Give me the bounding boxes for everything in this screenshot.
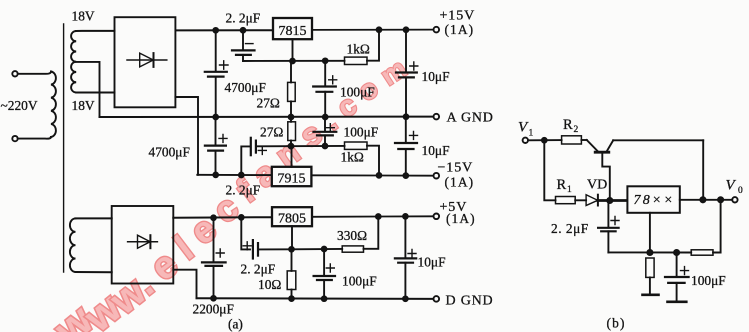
node dot emitter junction [607,198,612,203]
svg-text:1: 1 [567,185,572,195]
svg-text:27Ω: 27Ω [257,96,280,111]
svg-text:4700μF: 4700μF [225,80,266,95]
wire B1 minus output down [175,97,198,175]
wire R1 to VD [575,199,586,201]
capacitor C7 2.2uF mid plates [251,138,266,155]
wire primary bottom lead [18,137,51,139]
capacitor C6 100uF mid [314,117,337,146]
wire B2 minus output down [173,270,196,299]
resistor 10 ohm [287,249,296,298]
wire primary top lead [18,72,51,74]
regulator 78xx [627,186,679,213]
A GND rail [100,116,434,118]
svg-text:~220V: ~220V [1,98,38,113]
wire 7815 ground pin [292,39,294,61]
capacitor C1 4700uF upper [205,30,228,117]
terminal -15V [434,173,440,179]
node dot at 1k corner [377,27,382,32]
resistor 330 ohm [342,246,363,252]
transformer T1 core [63,24,65,272]
wire y61 bus [243,30,379,61]
svg-text:330Ω: 330Ω [337,228,367,243]
svg-text:(1A): (1A) [445,22,475,37]
node dot +5 10uF [403,214,408,219]
node dot rail-gnd resistor [647,250,652,255]
terminal A GND [434,114,440,120]
svg-text:7815: 7815 [279,24,307,39]
node dot minus 2.2uF [239,173,244,178]
node dot minus 4700uF [213,173,218,178]
transformer T1 secondary winding S2 [70,218,76,272]
wire 7805 out to +5V terminal [312,215,434,218]
resistor feedback horizontal [691,200,720,255]
node dot rail 100uF [674,250,679,255]
svg-text:27Ω: 27Ω [260,125,283,140]
node dot DGND 10uF [403,296,408,301]
resistor below 78xx gnd [646,258,654,294]
node dot AGND 27ohm [289,115,294,120]
node dot AGND 4700uF [213,115,218,120]
node dot output feedback [718,197,723,202]
svg-text:1kΩ: 1kΩ [341,150,364,165]
y146 bus with 2.2uF C7 [241,146,379,176]
node dot V1 junction [542,138,547,143]
wire 78xx gnd pin [649,213,651,253]
wire V1 junction down to R1 [544,140,555,200]
resistor 1k ohm lower [345,142,368,149]
svg-text:(b): (b) [607,316,626,331]
node dot AGND 100uF [323,115,328,120]
transistor Q1 [587,140,613,200]
svg-text:R: R [557,177,567,193]
regulator U3 7805 [272,207,312,226]
resistor 27 ohm upper [288,61,296,117]
transformer T1 primary winding [51,72,56,138]
svg-text:78××: 78×× [634,193,676,208]
wire R2 to transistor [581,139,586,141]
svg-text:2. 2μF: 2. 2μF [241,262,276,277]
svg-text:1: 1 [529,129,534,139]
svg-text:1kΩ: 1kΩ [347,42,370,57]
wire B2 + output to 7805 [173,216,272,219]
node dot +5 rail 2200uF [211,215,216,220]
regulator U1 7815 [273,18,312,39]
wire S1 top to bridge B1 [76,30,114,32]
svg-text:0: 0 [738,186,743,196]
capacitor C3 100uF upper [313,61,337,117]
node dot DGND 10ohm [289,296,294,301]
capacitor C13 2.2uF part b [598,201,619,253]
capacitor C12 10uF low [395,216,416,298]
wire VD to 78xx (thick) [598,199,628,202]
svg-text:2: 2 [574,125,579,135]
svg-text:2. 2μF: 2. 2μF [226,183,261,198]
node dot + rail at 2.2uF [241,28,246,33]
node dot at 10uF [404,27,409,32]
svg-text:4700μF: 4700μF [149,145,190,160]
terminal +5V [434,214,440,220]
node dot output collector [700,197,705,202]
svg-text:7805: 7805 [278,212,306,227]
node dot 100uF top [323,58,328,63]
svg-text:10μF: 10μF [418,255,446,270]
svg-text:(1A): (1A) [445,175,475,190]
minus rail left segment [197,174,271,176]
terminal V1 [523,138,528,143]
capacitor C4 10uF upper [396,30,418,117]
wire S2 top to bridge B2 [76,217,112,219]
wire V1 to R2 [528,139,562,141]
svg-text:10Ω: 10Ω [258,277,281,292]
minus rail right segment 7915 out [311,174,433,176]
diode inside B1 [127,53,167,67]
capacitor C11 100uF low [314,249,335,299]
svg-text:100μF: 100μF [340,85,375,100]
wire collector down to output [702,140,704,200]
resistor R1 [556,197,576,204]
svg-text:2. 2μF: 2. 2μF [226,11,261,26]
svg-text:D GND: D GND [446,294,494,309]
wire S2 bottom to bridge B2 [76,271,112,273]
svg-text:2. 2μF: 2. 2μF [551,221,589,236]
resistor R2 [562,136,582,144]
wire 7915 gnd pin [291,146,293,167]
wire B1 + output to 7815 [176,29,273,31]
svg-text:−15V: −15V [438,161,474,176]
bridge rectifier B2 [112,206,174,284]
svg-text:(a): (a) [228,317,243,332]
svg-text:A GND: A GND [447,111,494,126]
wire S1 center tap to A GND rail [76,62,99,117]
node dot y249 100uF [322,247,327,252]
ground bar left [643,293,659,296]
wire Q1 collector to right [613,139,703,141]
capacitor C8 10uF lower [395,117,418,176]
svg-text:10μF: 10μF [422,69,450,84]
watermark www.elecfans.com [45,52,412,332]
capacitor C10 2.2uF low [241,217,291,258]
svg-text:18V: 18V [72,9,95,24]
svg-text:7915: 7915 [278,172,306,187]
node dot +5 rail 2.2uF [239,215,244,220]
node dot +5 330 corner [376,214,381,219]
node dot AGND 10uF [404,114,409,119]
svg-text:VD: VD [587,178,607,193]
transformer T1 primary terminal top [12,71,17,76]
wire S1 bottom to bridge B1 [76,92,114,94]
svg-text:R: R [563,117,573,133]
resistor 1k ohm upper [345,57,368,64]
D GND rail [197,297,434,300]
svg-text:10μF: 10μF [422,143,450,158]
svg-text:100μF: 100μF [344,125,379,140]
wire 7805 gnd pin [291,226,293,249]
bottom rail part b [608,251,691,253]
y249 bus [291,217,378,250]
node dot minus 10uF [403,173,408,178]
svg-text:2200μF: 2200μF [193,302,234,317]
node dot DGND 100uF [322,296,327,301]
svg-text:100μF: 100μF [691,273,726,288]
resistor 27 ohm lower [288,117,296,146]
node dot y146 27ohm [289,144,294,149]
node dot + rail at 4700uF [213,28,218,33]
diode inside B2 [128,235,158,248]
capacitor C9 2200uF [202,218,226,299]
svg-text:(1A): (1A) [446,211,476,226]
node dot 7815 gnd [290,59,295,64]
capacitor C2 2.2uF upper [232,30,255,61]
node dot DGND 2200uF [211,296,216,301]
terminal D GND [434,296,440,302]
capacitor C14 100uF part b [665,253,689,301]
terminal V0 [732,197,737,202]
diode VD [586,195,598,206]
svg-text:18V: 18V [72,98,95,113]
wire 78xx output to V0 [680,199,732,201]
terminal +15V [434,27,440,33]
regulator U2 7915 [272,167,312,186]
capacitor C5 4700uF lower [205,117,227,175]
ground bar right [668,300,687,303]
svg-text:100μF: 100μF [342,274,377,289]
node dot y249 10ohm [289,247,294,252]
transformer T1 primary terminal bottom [12,136,17,141]
node dot y146 100uF [323,144,328,149]
wire 7815 output to +15V terminal [312,29,434,31]
bridge rectifier B1 [115,17,176,107]
transformer T1 secondary winding S1 [71,31,76,93]
node dot minus 1k corner [377,173,382,178]
